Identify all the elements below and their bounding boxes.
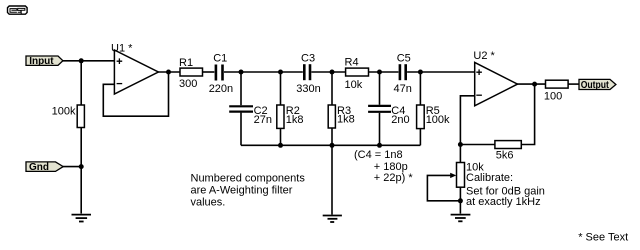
svg-text:27n: 27n [254, 114, 272, 126]
svg-text:U2 *: U2 * [473, 50, 495, 62]
svg-text:2n0: 2n0 [391, 114, 409, 126]
svg-text:100: 100 [544, 91, 562, 103]
svg-text:C3: C3 [301, 53, 315, 65]
svg-text:Numbered components: Numbered components [191, 172, 306, 184]
svg-text:are A-Weighting filter: are A-Weighting filter [191, 185, 293, 197]
svg-text:100k: 100k [426, 114, 450, 126]
svg-text:220n: 220n [209, 83, 233, 95]
svg-text:1k8: 1k8 [286, 114, 304, 126]
svg-text:U1 *: U1 * [111, 42, 133, 54]
svg-text:300: 300 [179, 78, 197, 90]
svg-text:+ 22p) *: + 22p) * [374, 172, 414, 184]
svg-text:C5: C5 [397, 53, 411, 65]
svg-text:Output: Output [581, 80, 610, 91]
svg-text:C1: C1 [213, 53, 227, 65]
svg-text:Gnd: Gnd [29, 162, 49, 173]
svg-text:100k: 100k [52, 105, 76, 117]
svg-text:Input: Input [29, 56, 54, 67]
svg-text:5k6: 5k6 [496, 150, 514, 162]
svg-text:10k: 10k [345, 79, 363, 91]
svg-text:R1: R1 [179, 57, 193, 69]
svg-text:values.: values. [191, 197, 226, 209]
svg-text:330n: 330n [296, 83, 320, 95]
svg-text:1k8: 1k8 [337, 114, 355, 126]
svg-text:at exactly 1kHz: at exactly 1kHz [466, 196, 541, 208]
svg-text:* See Text: * See Text [578, 231, 628, 243]
svg-text:(C4 = 1n8: (C4 = 1n8 [354, 149, 403, 161]
svg-text:R4: R4 [345, 57, 359, 69]
svg-text:47n: 47n [394, 83, 412, 95]
svg-text:Calibrate:: Calibrate: [466, 172, 513, 184]
